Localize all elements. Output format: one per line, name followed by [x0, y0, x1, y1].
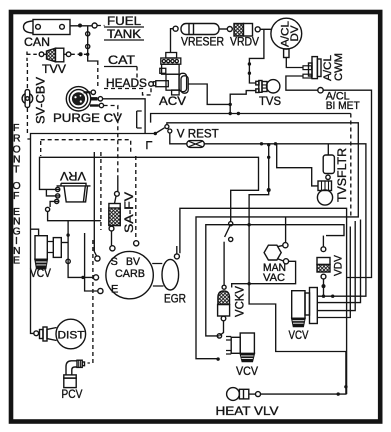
svg-text:HEADS: HEADS	[106, 78, 147, 90]
svg-text:DIST: DIST	[58, 330, 85, 342]
svg-text:DV: DV	[289, 25, 301, 42]
svg-text:VCV: VCV	[289, 330, 309, 342]
svg-text:F: F	[13, 190, 19, 202]
svg-text:HEAT VLV: HEAT VLV	[216, 406, 279, 418]
svg-text:VCV: VCV	[236, 366, 258, 378]
svg-text:VDV: VDV	[333, 254, 345, 276]
svg-text:E: E	[111, 284, 118, 296]
svg-text:TANK: TANK	[107, 29, 141, 41]
svg-text:ACV: ACV	[159, 96, 186, 108]
svg-text:PURGE CV: PURGE CV	[53, 113, 122, 125]
svg-text:VCV: VCV	[30, 268, 51, 280]
svg-text:PCV: PCV	[61, 389, 82, 401]
svg-text:CWM: CWM	[333, 53, 345, 81]
svg-text:BI MET: BI MET	[326, 100, 360, 112]
svg-text:TVV: TVV	[42, 64, 66, 76]
svg-text:T: T	[13, 164, 20, 176]
svg-text:FUEL: FUEL	[107, 16, 142, 28]
svg-text:SA-FV: SA-FV	[124, 192, 136, 233]
svg-text:E: E	[13, 255, 20, 267]
svg-text:CAT: CAT	[108, 55, 135, 67]
svg-text:VCKV: VCKV	[235, 286, 247, 317]
svg-text:SV-CBV: SV-CBV	[36, 77, 48, 124]
svg-text:VRDV: VRDV	[230, 37, 259, 49]
svg-text:VRV: VRV	[60, 169, 86, 181]
svg-text:VAC: VAC	[263, 272, 285, 284]
svg-text:V REST: V REST	[177, 129, 219, 141]
svg-text:CAN: CAN	[24, 37, 50, 49]
svg-text:TVSFLTR: TVSFLTR	[337, 148, 349, 202]
svg-text:VRESER: VRESER	[181, 37, 224, 49]
svg-text:TVS: TVS	[259, 96, 281, 108]
svg-text:CARB: CARB	[115, 268, 145, 280]
svg-text:S: S	[111, 256, 118, 268]
svg-text:EGR: EGR	[164, 294, 186, 306]
svg-text:BV: BV	[126, 256, 141, 268]
